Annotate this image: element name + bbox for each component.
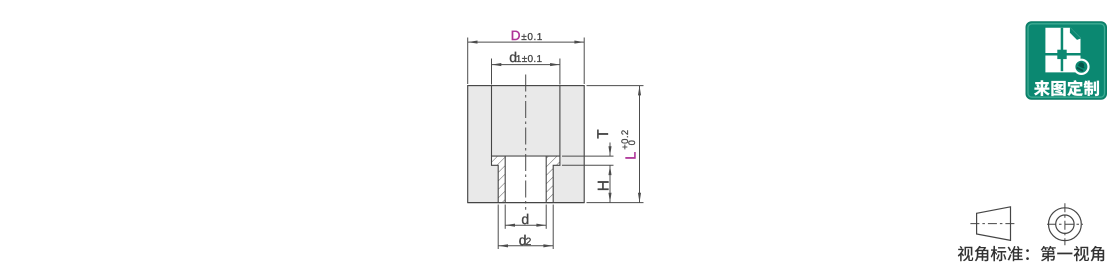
cone symbol [977,207,1011,241]
dim d2 extension line right [552,205,554,250]
dim d1 extension line right [559,59,561,85]
dim d extension line left [504,205,506,229]
cone centerline [970,223,1015,225]
label H (rotated) [595,180,612,191]
caption 视角标准：第一视角 [958,246,973,261]
svg-text:1±0.1: 1±0.1 [516,54,543,65]
dim L line [639,86,641,203]
dim D extension line left [467,38,469,85]
svg-text:D: D [511,28,521,43]
bore d1 right edge [559,86,561,157]
label L +0.2/0 (rotated) [620,129,640,159]
svg-text:T: T [595,129,612,139]
document crosshair center square [1057,50,1066,59]
svg-text:H: H [595,180,612,191]
dim T line [609,143,611,157]
document fold line [1070,27,1081,40]
dim d1 line [492,64,560,66]
badge document icon [1045,28,1080,73]
dim D extension line right [583,38,585,85]
svg-text:L: L [624,152,640,160]
svg-text:2: 2 [526,236,532,248]
dim H line [609,165,611,202]
bore bottom / flange top line [492,155,560,157]
svg-text:±0.1: ±0.1 [521,32,543,43]
circles symbol outer [1049,208,1082,241]
dim d line [505,224,546,226]
svg-text:d: d [521,211,529,227]
bore d1 left edge [491,86,493,157]
through hole d (white) [505,157,546,202]
svg-text:0: 0 [627,140,638,145]
vertical centerline [525,75,527,210]
badge text 来图定制 [1034,80,1050,96]
block bottom edge over hole [468,202,585,204]
leader line flange bottom [562,164,614,166]
dim L extension line bottom [587,202,644,204]
svg-text:+0.2: +0.2 [620,129,631,149]
badge background [1026,22,1107,99]
leader line flange top [562,155,614,157]
circle crosshair vertical [1064,203,1066,245]
dim d2 line [498,245,553,247]
dim L extension line top [587,85,644,87]
document crosshair vertical [1061,28,1064,71]
label T (rotated) [595,129,612,139]
circles symbol inner [1056,215,1074,233]
block body [468,86,585,203]
bushing wall right (hatched) [546,156,560,203]
dim d1 extension line left [491,59,493,85]
stamp glyph [1076,61,1086,72]
stamp circle [1074,60,1088,74]
bushing wall left (hatched) [492,156,506,203]
dim D line [468,41,585,43]
circle crosshair horizontal [1047,223,1083,225]
dim d extension line right [545,205,547,229]
dim d2 extension line left [497,205,499,250]
document crosshair horizontal [1041,53,1081,56]
